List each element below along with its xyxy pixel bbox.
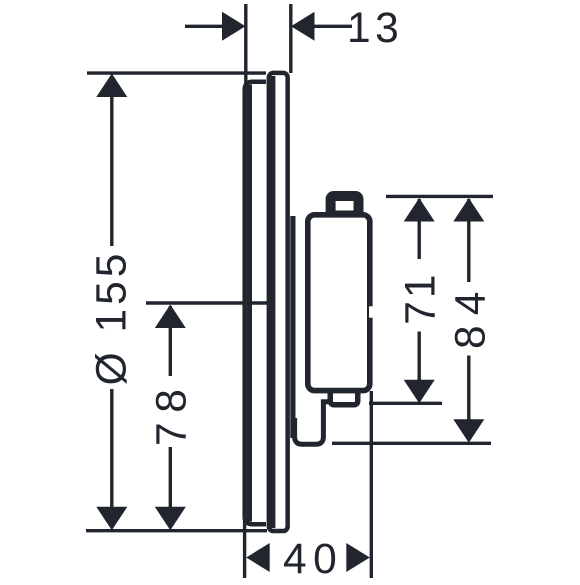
dim 78 line upper segment (169, 306, 172, 376)
dim 71 line upper segment (418, 199, 421, 259)
svg-text:71: 71 (398, 271, 445, 324)
svg-text:84: 84 (447, 282, 494, 349)
dim 40 extension line left (243, 508, 246, 578)
dim 40 arrow pointing left (246, 543, 270, 572)
dim 84 bottom extension line (332, 442, 491, 445)
dim 13 leader tail right (313, 25, 352, 28)
dim 13 extension line right (289, 4, 292, 73)
dim 78 arrow up (155, 305, 186, 329)
dim D155 line lower segment (110, 389, 113, 527)
outlet elbow (295, 402, 336, 445)
dim 71 line lower segment (418, 332, 421, 402)
dim 78 top extension line (146, 301, 268, 304)
dim 13 extension line left (244, 4, 247, 90)
dim D155 line upper segment (110, 76, 113, 246)
dim 71 arrow up (404, 198, 435, 222)
front cover plate rim line (247, 85, 252, 522)
dim 13 arrow pointing left (291, 12, 315, 41)
svg-text:13: 13 (347, 5, 403, 52)
valve body rear line (290, 216, 295, 438)
svg-text:Ø 155: Ø 155 (89, 250, 136, 386)
dim 13 leader tail left (185, 25, 224, 28)
svg-text:78: 78 (149, 380, 196, 446)
svg-text:40: 40 (283, 536, 343, 580)
dim D155 arrow up (96, 74, 127, 98)
dim 71 arrow down (404, 380, 435, 404)
dim 40 extension line right (370, 391, 373, 578)
dim 78 arrow down (155, 507, 186, 531)
escutcheon plate disc inner rim line (271, 76, 275, 528)
handle foot (330, 388, 358, 405)
dim D155 bottom extension line (86, 529, 267, 532)
dim 84 arrow up (453, 198, 484, 222)
dim 84 line lower segment (467, 356, 470, 441)
dim D155 arrow down (96, 507, 127, 531)
dim 71 bottom extension line (369, 402, 442, 405)
dim 84 line upper segment (467, 199, 470, 282)
handle cap (331, 196, 359, 216)
dim D155 top extension line (87, 71, 266, 74)
dim 40 arrow pointing right (346, 543, 370, 572)
dim 84 arrow down (453, 419, 484, 443)
dim 71 84 top extension line (386, 195, 493, 198)
handle knob edge notch (369, 306, 375, 317)
dim 78 line lower segment (169, 447, 172, 527)
front cover plate outline (245, 82, 266, 525)
escutcheon plate disc body (269, 73, 288, 531)
handle knob body (308, 215, 370, 391)
dim 13 arrow pointing right (222, 12, 246, 41)
